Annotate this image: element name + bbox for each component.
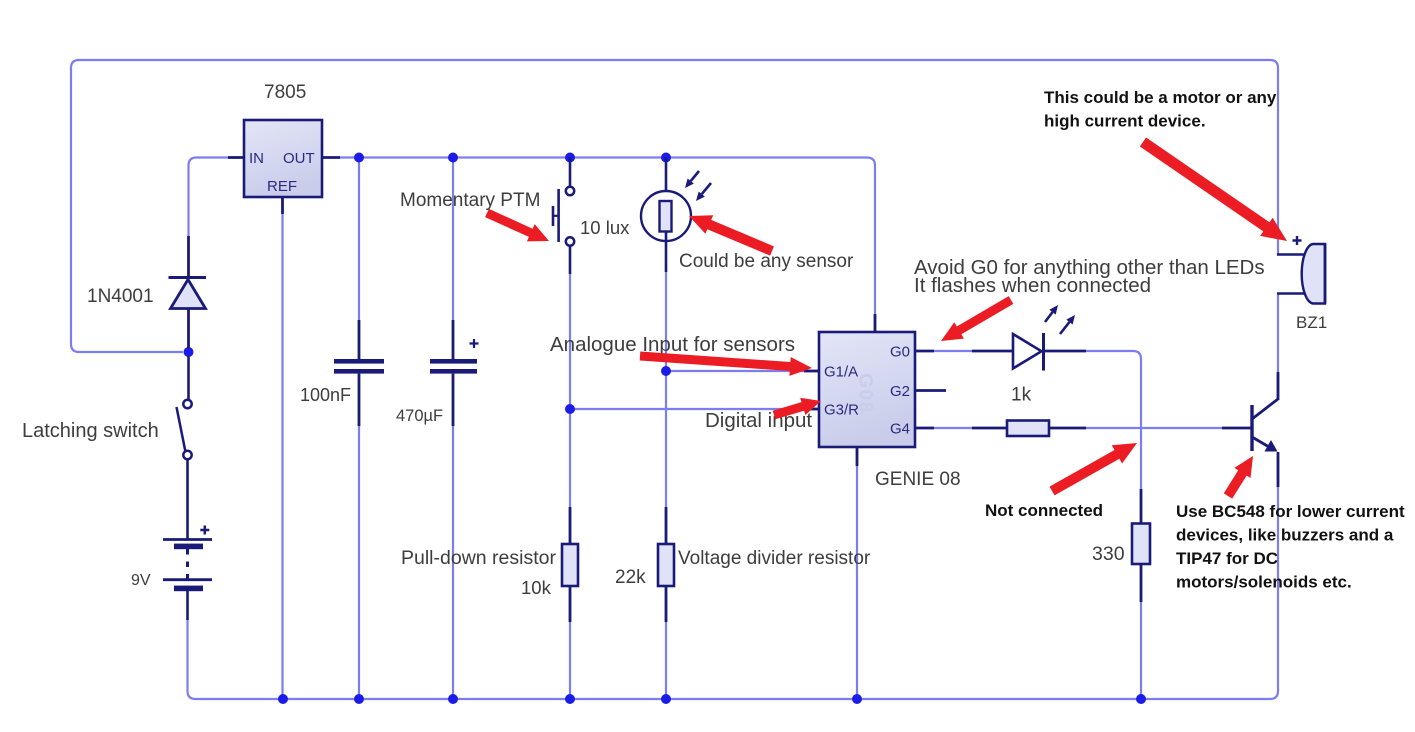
label GENIE 08 (875, 469, 961, 490)
svg-text:470µF: 470µF (396, 407, 443, 425)
svg-text:devices, like buzzers and a: devices, like buzzers and a (1176, 526, 1394, 545)
label Pull-down resistor (401, 547, 556, 569)
label BZ1 (1296, 313, 1327, 332)
buzzer BZ1 (1277, 236, 1325, 304)
svg-text:GENIE 08: GENIE 08 (875, 469, 961, 490)
svg-text:This could be a motor or any: This could be a motor or any (1044, 88, 1277, 107)
wire 330 to ground rail (1140, 601, 1142, 699)
svg-text:1N4001: 1N4001 (87, 286, 154, 307)
label 100nF (300, 385, 351, 405)
node ground at 470uF (448, 694, 458, 704)
node ground at 330 (1136, 694, 1146, 704)
wire PTM to G3/R node and 10k (569, 273, 571, 507)
svg-text:Pull-down resistor: Pull-down resistor (401, 547, 556, 569)
capacitor C1 100nF (334, 320, 384, 426)
svg-text:100nF: 100nF (300, 385, 351, 405)
label 22k (615, 567, 646, 588)
svg-text:G0: G0 (890, 344, 910, 361)
svg-text:IN: IN (249, 150, 264, 167)
svg-text:Use BC548 for lower current: Use BC548 for lower current (1176, 502, 1405, 521)
led D2 (972, 333, 1086, 371)
svg-text:Voltage divider resistor: Voltage divider resistor (678, 548, 871, 569)
label 9V (131, 572, 151, 589)
label Latching switch (22, 420, 159, 442)
node ground at REF (278, 694, 288, 704)
arrow annotation to BZ1 (1140, 138, 1287, 242)
svg-text:7805: 7805 (264, 82, 306, 103)
svg-text:TIP47 for DC: TIP47 for DC (1176, 549, 1278, 568)
wire top +5V rail from 7805 OUT to GENIE top pin (340, 158, 875, 315)
sensor LS1 light sensor 10 lux (641, 158, 691, 273)
node ground at GENIE (852, 694, 862, 704)
svg-text:Latching switch: Latching switch (22, 420, 159, 442)
node +5V at sensor (661, 153, 671, 163)
svg-text:10k: 10k (521, 577, 552, 598)
arrow annotation to PTM (485, 209, 549, 242)
diode D1 1N4001 (169, 236, 207, 348)
label 330 (1092, 543, 1125, 565)
transistor Q1 (1222, 372, 1278, 487)
resistor R4 330 (1132, 489, 1150, 602)
wire 100nF branch top (358, 158, 360, 323)
wire 22k to ground rail (665, 621, 667, 699)
resistor R3 1k on G4 (972, 421, 1086, 437)
wire 10k to ground rail (569, 621, 571, 699)
node ground at 10k (565, 694, 575, 704)
wire G3/R net from PTM node to GENIE (570, 408, 804, 410)
label This could be a motor note (1044, 88, 1277, 131)
label Could be any sensor (679, 251, 854, 272)
node +5V at 100nF (354, 153, 364, 163)
led light arrows (1045, 305, 1075, 334)
svg-text:G3/R: G3/R (824, 402, 859, 419)
wire sensor to G1/A node and 22k (665, 271, 667, 507)
svg-text:G2: G2 (890, 383, 910, 400)
node G3/R tap (565, 404, 575, 414)
label Avoid G0 note (914, 256, 1265, 297)
regulator U1 7805 body (228, 120, 340, 214)
wire G4 segment left (934, 427, 972, 429)
node +5V at 470uF (448, 153, 458, 163)
arrow annotation to G0 pin (941, 296, 1013, 341)
arrow annotation to sensor (689, 215, 774, 255)
label 1k (1011, 385, 1032, 406)
label 1N4001 (87, 286, 154, 307)
label Analogue Input for sensors (550, 333, 795, 356)
node ground at 100nF (354, 694, 364, 704)
wire G1/A net from sensor node to GENIE (666, 370, 804, 372)
svg-text:330: 330 (1092, 543, 1125, 565)
label Use BC548 note (1176, 502, 1405, 592)
ic U2 GENIE 08 body (804, 314, 946, 466)
svg-text:Analogue Input for sensors: Analogue Input for sensors (550, 333, 795, 356)
node diode cathode / loop / switch (184, 347, 194, 357)
resistor R1 10k pull-down (562, 507, 578, 622)
svg-text:motors/solenoids etc.: motors/solenoids etc. (1176, 573, 1352, 592)
svg-text:Momentary PTM: Momentary PTM (400, 190, 540, 211)
label 10k (521, 577, 552, 598)
capacitor C2 470uF (430, 320, 479, 426)
resistor R2 22k voltage divider (658, 507, 674, 622)
label Not connected (985, 501, 1103, 520)
label Voltage divider resistor (678, 548, 871, 569)
svg-text:10 lux: 10 lux (580, 217, 630, 238)
wire LED cathode to 330 resistor (1086, 351, 1141, 489)
wire 100nF branch bottom (358, 424, 360, 699)
svg-text:BZ1: BZ1 (1296, 313, 1327, 332)
svg-text:22k: 22k (615, 567, 646, 588)
svg-text:G4: G4 (890, 421, 910, 438)
label 7805 (264, 82, 306, 103)
switch S2 momentary PTM (553, 158, 574, 275)
svg-text:OUT: OUT (283, 150, 315, 167)
label Digital input (705, 409, 812, 432)
wire REF pin to ground rail (281, 214, 283, 699)
svg-text:high current device.: high current device. (1044, 112, 1206, 131)
svg-text:Could be any sensor: Could be any sensor (679, 251, 854, 272)
wire BZ1 bottom to transistor collector (1277, 294, 1279, 373)
svg-text:It flashes when connected: It flashes when connected (914, 274, 1151, 297)
node ground at 22k (661, 694, 671, 704)
wire 470uF branch bottom (452, 424, 454, 699)
arrow annotation to transistor (1224, 456, 1253, 499)
svg-text:1k: 1k (1011, 385, 1032, 406)
arrow annotation to G3/R (773, 398, 821, 420)
svg-text:G1/A: G1/A (824, 364, 858, 381)
label Momentary PTM (400, 190, 540, 211)
wire ground rail (bottom) with corners (188, 486, 1279, 699)
label 470uF (396, 407, 443, 425)
node G1/A tap (661, 366, 671, 376)
wire G0 segment (934, 350, 972, 352)
light arrows onto sensor (685, 171, 711, 201)
battery B1 9V (163, 526, 212, 621)
svg-text:9V: 9V (131, 572, 151, 589)
switch S1 latching (177, 356, 192, 540)
arrow annotation to G1/A (640, 352, 812, 376)
label 10 lux (580, 217, 630, 238)
wire 470uF branch top (452, 158, 454, 323)
wire 7805 IN branch from top rail down to diode (189, 158, 229, 237)
wire outer supply loop (battery top to BZ1) (71, 60, 1278, 352)
node +5V at PTM (565, 153, 575, 163)
wire GENIE bottom pin to ground rail (856, 465, 858, 699)
wire G4 resistor to transistor base (1086, 427, 1222, 429)
svg-text:Not connected: Not connected (985, 501, 1103, 520)
svg-text:REF: REF (267, 178, 297, 195)
arrow annotation to crossing (1050, 443, 1138, 495)
